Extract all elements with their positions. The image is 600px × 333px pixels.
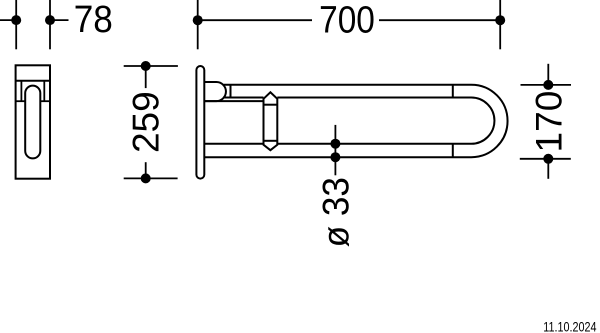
dim diameter leader line bbox=[334, 125, 336, 175]
svg-text:700: 700 bbox=[319, 0, 375, 41]
dim 259 line lower segment bbox=[145, 162, 147, 178]
wall flange (main view) bbox=[196, 66, 204, 179]
dim 259 crossbar top bbox=[124, 65, 178, 67]
svg-text:259: 259 bbox=[125, 91, 166, 153]
dim diameter dot top bbox=[330, 139, 340, 149]
dim 700 line right segment bbox=[379, 19, 500, 21]
dim 78 stub left bbox=[0, 19, 16, 21]
dim 259 line upper segment bbox=[145, 66, 147, 88]
dim 170 stub bottom bbox=[547, 159, 549, 179]
svg-text:170: 170 bbox=[528, 91, 569, 153]
bracket shelf right bbox=[40, 100, 50, 102]
dim 170 stub top bbox=[547, 64, 549, 85]
dim 700 dot left bbox=[193, 15, 203, 25]
dim 170 crossbar bottom bbox=[520, 158, 571, 160]
svg-text:ø 33: ø 33 bbox=[315, 177, 357, 247]
dim 78 stub right bbox=[50, 19, 69, 21]
dim 700 dot right bbox=[495, 15, 505, 25]
dim diameter dot bottom bbox=[330, 152, 340, 162]
dim 259 crossbar bottom bbox=[124, 177, 178, 179]
dim 259 dot bottom bbox=[141, 173, 151, 183]
pivot hub bbox=[204, 82, 226, 101]
lower tube top line left segment bbox=[204, 143, 263, 145]
dim 78 dot left bbox=[11, 15, 21, 25]
dim 700 extension line right bbox=[499, 0, 501, 49]
dim 259 dot top bbox=[141, 61, 151, 71]
wall plate outline (side view) bbox=[16, 65, 50, 178]
tube seam lower at bend bbox=[452, 144, 454, 157]
hinge strut body bbox=[264, 92, 278, 150]
dim 78 dot right bbox=[45, 15, 55, 25]
folded rail tube (side view) bbox=[25, 86, 40, 159]
upper tube bottom line left segment bbox=[223, 97, 263, 99]
rail outer contour: upper tube top, outer bend, lower tube bottom bbox=[204, 85, 507, 158]
tube seam upper at bend bbox=[452, 85, 454, 98]
hinge strut cap bottom bbox=[264, 140, 278, 142]
dim 170 dot bottom bbox=[543, 154, 553, 164]
svg-text:11.10.2024: 11.10.2024 bbox=[543, 319, 596, 333]
dim 78 extension line right bbox=[49, 0, 51, 49]
hinge strut cap top bbox=[264, 104, 278, 106]
dim 700 line left segment bbox=[198, 19, 312, 21]
tube seam at hub bbox=[230, 85, 232, 98]
upper tube bottom line + inner bend + lower tube top line bbox=[277, 98, 494, 144]
dim 170 crossbar top bbox=[521, 84, 572, 86]
dim 78 extension line left bbox=[15, 0, 17, 49]
dim 170 dot top bbox=[543, 80, 553, 90]
cover cap line bbox=[16, 80, 50, 82]
svg-text:78: 78 bbox=[74, 0, 113, 40]
bracket left vertical bbox=[20, 81, 22, 102]
bracket shelf left bbox=[16, 100, 26, 102]
folded arm top line bbox=[204, 100, 263, 102]
bracket right vertical bbox=[43, 81, 45, 102]
dim 700 extension line left bbox=[197, 0, 199, 49]
